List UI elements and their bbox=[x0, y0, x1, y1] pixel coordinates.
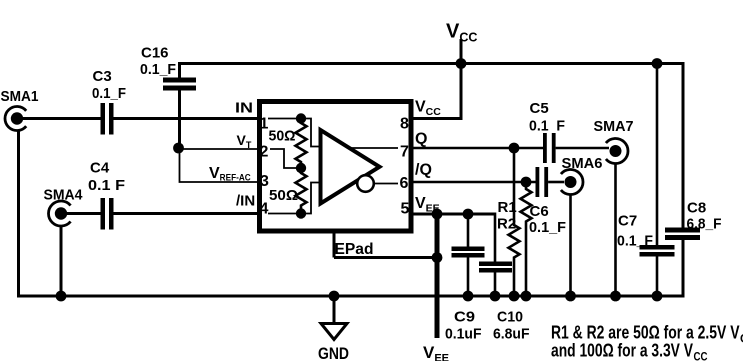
resistor 50ohm lower bbox=[269, 168, 307, 214]
wire SMA4 to C4 bbox=[66, 212, 101, 215]
wire EPad to VEE drop bbox=[334, 256, 437, 259]
resistor 50ohm upper bbox=[269, 119, 307, 169]
node EPad/VEE junction bbox=[432, 252, 443, 263]
capacitor C6 bbox=[529, 167, 566, 236]
svg-text:0.1_F: 0.1_F bbox=[92, 85, 126, 102]
wire C5 to SMA7 bbox=[556, 147, 609, 150]
wire VEE drop (thick) bbox=[435, 214, 440, 338]
svg-text:50Ω: 50Ω bbox=[269, 187, 298, 204]
node VCC rail junction bbox=[456, 58, 467, 69]
svg-text:IN: IN bbox=[235, 100, 253, 117]
svg-text:6.8_F: 6.8_F bbox=[687, 216, 722, 233]
svg-text:0.1_F: 0.1_F bbox=[529, 219, 566, 236]
node VEE/EPad drop junction bbox=[432, 209, 443, 220]
svg-text:/Q: /Q bbox=[415, 162, 432, 179]
junction R2/ground bbox=[509, 291, 520, 302]
resistor R2 bbox=[497, 148, 520, 296]
svg-text:6: 6 bbox=[400, 175, 409, 192]
node resistor middle dot bbox=[296, 163, 306, 173]
wire VREF-AC (down then right to pin 3) bbox=[180, 149, 259, 182]
svg-text:SMA7: SMA7 bbox=[594, 118, 634, 135]
svg-text:C9: C9 bbox=[454, 309, 475, 326]
internal wire to - input bbox=[301, 183, 319, 214]
wire C6 to SMA6 bbox=[548, 181, 564, 184]
svg-text:SMA1: SMA1 bbox=[1, 88, 39, 105]
svg-text:CC: CC bbox=[694, 352, 708, 361]
node C7/VCC rail junction bbox=[652, 58, 663, 69]
junction R1/ground bbox=[521, 291, 532, 302]
node /Q junction dot bbox=[521, 177, 532, 188]
svg-text:C4: C4 bbox=[90, 160, 110, 177]
svg-text:7: 7 bbox=[400, 144, 409, 161]
node VT junction dot bbox=[173, 143, 184, 154]
VCC top rail bbox=[178, 62, 683, 65]
capacitor C10 bbox=[479, 213, 530, 343]
svg-text:R1 & R2 are 50Ω for a 2.5V V: R1 & R2 are 50Ω for a 2.5V V bbox=[551, 323, 740, 343]
capacitor C9 bbox=[445, 214, 485, 343]
svg-text:0.1uF: 0.1uF bbox=[445, 326, 482, 343]
svg-text:Q: Q bbox=[415, 131, 427, 148]
node resistor bottom dot bbox=[296, 208, 306, 218]
svg-text:3: 3 bbox=[260, 173, 269, 190]
wire C16 bottom to VT node bbox=[178, 90, 181, 150]
svg-text:C7: C7 bbox=[618, 213, 637, 230]
junction C7/ground bbox=[652, 291, 663, 302]
internal wire /Q output to pin 6 bbox=[374, 183, 398, 185]
capacitor C16 bbox=[140, 45, 196, 91]
wire pin 5 VEE bbox=[411, 213, 495, 216]
svg-text:SMA4: SMA4 bbox=[44, 187, 84, 204]
wire pin 6 /Q to C6 bbox=[411, 181, 536, 184]
wire SMA1 to C3 bbox=[22, 117, 101, 120]
svg-text:2: 2 bbox=[260, 144, 269, 161]
capacitor C7 bbox=[617, 64, 675, 297]
junction SMA4/ground bbox=[56, 291, 67, 302]
junction C10/ground bbox=[490, 291, 501, 302]
junction SMA6/ground bbox=[565, 291, 576, 302]
wire C4 to pin 4 /IN bbox=[114, 212, 259, 215]
capacitor C3 bbox=[92, 68, 126, 135]
internal wire to + input bbox=[301, 119, 319, 147]
ground tap junction dot bbox=[329, 291, 340, 302]
svg-text:GND: GND bbox=[318, 344, 349, 361]
internal wire Q output to pin 7 bbox=[348, 147, 398, 149]
SMA connector SMA4 bbox=[44, 187, 84, 227]
SMA connector SMA1 bbox=[1, 88, 39, 131]
ground rail (bottom) bbox=[17, 295, 683, 298]
svg-text:and 100Ω for a 3.3V V: and 100Ω for a 3.3V V bbox=[551, 341, 693, 361]
svg-text:1: 1 bbox=[260, 116, 269, 133]
svg-text:C10: C10 bbox=[497, 309, 523, 326]
svg-text:8: 8 bbox=[400, 116, 409, 133]
capacitor C5 bbox=[529, 100, 565, 163]
internal wire pin 1 to resistor top bbox=[268, 118, 301, 120]
node Q junction dot bbox=[509, 143, 520, 154]
svg-text:C16: C16 bbox=[141, 45, 169, 62]
junction C9/ground bbox=[463, 291, 474, 302]
node C9 junction bbox=[463, 209, 474, 220]
wire pin 7 Q to C5 bbox=[411, 147, 543, 150]
wire SMA7 to ground rail bbox=[614, 163, 617, 296]
internal wire pin 2 to divider midpoint bbox=[270, 149, 301, 168]
svg-text:R2: R2 bbox=[497, 216, 516, 233]
capacitor C8 bbox=[665, 62, 722, 298]
wire C3 to pin 1 IN bbox=[114, 117, 259, 120]
svg-text:4: 4 bbox=[260, 201, 269, 218]
svg-text:0.1_F: 0.1_F bbox=[140, 61, 176, 78]
svg-text:50Ω: 50Ω bbox=[269, 128, 296, 145]
svg-text:0.1 F: 0.1 F bbox=[88, 177, 125, 194]
svg-text:C8: C8 bbox=[687, 200, 706, 217]
svg-text:/IN: /IN bbox=[236, 193, 255, 210]
inverting output bubble bbox=[357, 175, 374, 192]
svg-text:5: 5 bbox=[401, 201, 410, 218]
resistor R1 bbox=[498, 182, 532, 296]
svg-text:6.8uF: 6.8uF bbox=[493, 326, 530, 343]
capacitor C4 bbox=[88, 160, 125, 230]
EPad stub from IC bottom bbox=[333, 232, 336, 258]
svg-text:SMA6: SMA6 bbox=[562, 155, 603, 172]
junction SMA7/ground bbox=[610, 291, 621, 302]
ground symbol bbox=[321, 324, 347, 340]
svg-text:C5: C5 bbox=[530, 100, 549, 117]
SMA connector SMA7 bbox=[594, 118, 634, 164]
wire SMA6 to ground rail bbox=[569, 195, 572, 297]
wire SMA4 to ground rail bbox=[60, 225, 63, 296]
SMA connector SMA6 bbox=[561, 155, 603, 194]
op-amp IC U1 box bbox=[260, 102, 412, 232]
wire VCC label to rail and pin 8 bbox=[411, 39, 461, 119]
internal wire pin 4 to resistor bottom bbox=[268, 213, 301, 215]
svg-text:0.1 F: 0.1 F bbox=[529, 118, 565, 135]
svg-text:0.1_F: 0.1_F bbox=[617, 233, 653, 250]
svg-text:C3: C3 bbox=[93, 68, 112, 85]
node resistor top dot bbox=[296, 113, 306, 123]
ground symbol stem bbox=[333, 296, 336, 324]
wire VT to pin 2 bbox=[179, 148, 259, 150]
wire SMA1 to ground rail (left border) bbox=[17, 130, 20, 297]
comparator triangle bbox=[321, 130, 380, 204]
wire C16 top to VCC rail bbox=[178, 63, 181, 79]
svg-text:EPad: EPad bbox=[335, 241, 374, 258]
